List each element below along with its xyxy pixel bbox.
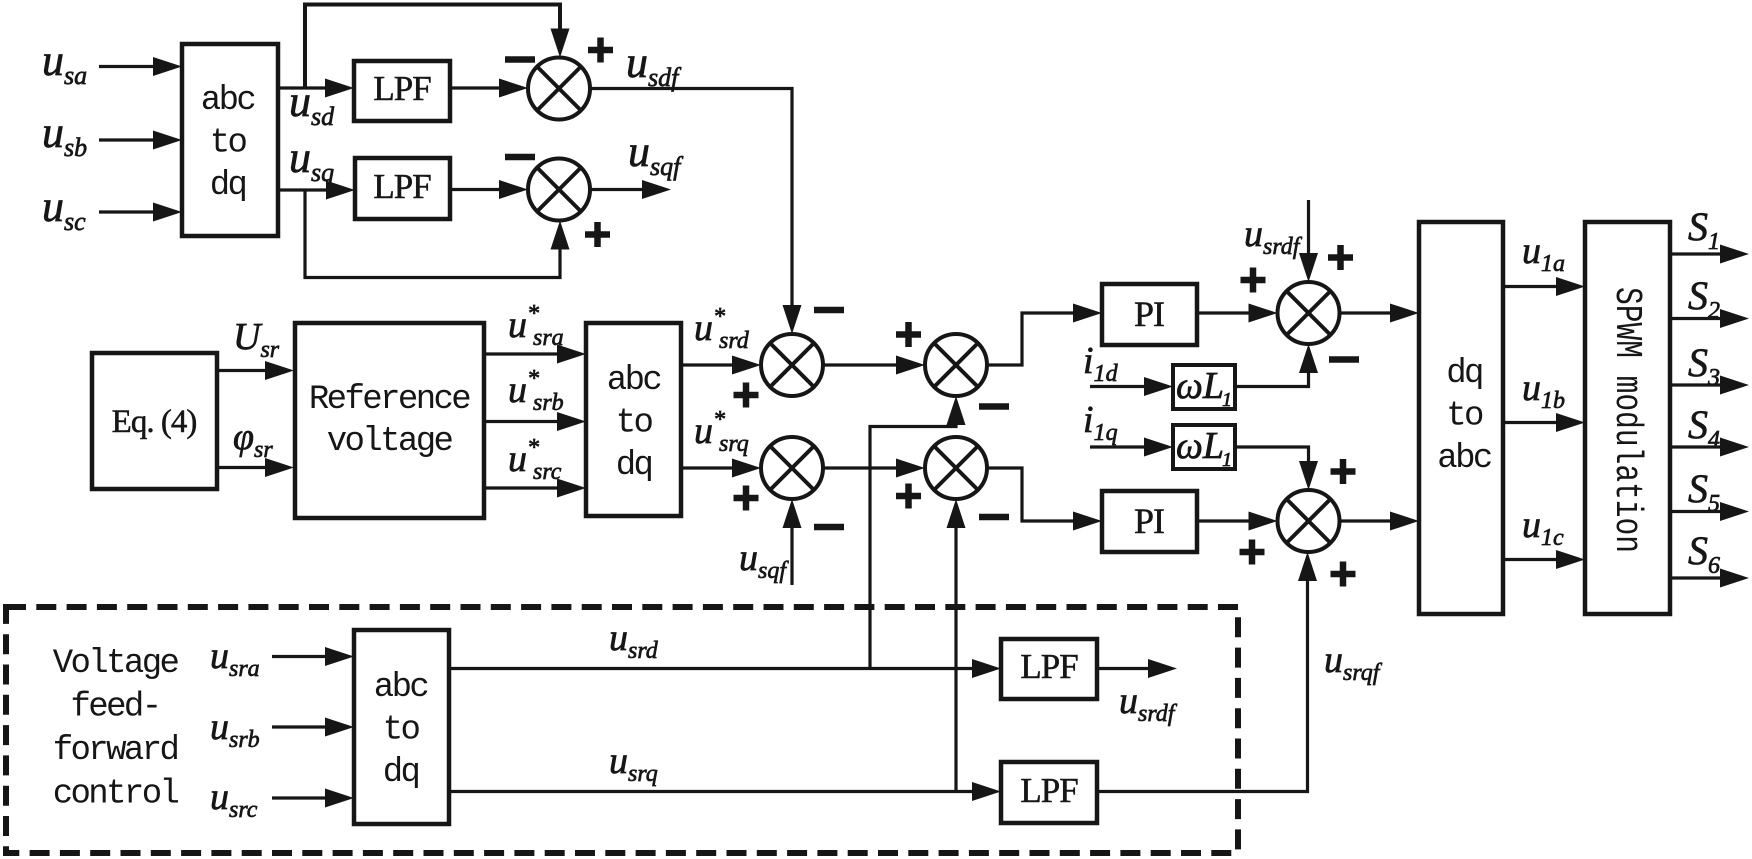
wire u*_src (484, 479, 586, 498)
wire u_srdf into C7 top (1299, 200, 1318, 282)
wire u_sq (278, 181, 355, 200)
svg-text:PI: PI (1134, 501, 1164, 541)
plus sign C2 bottom-right (585, 222, 610, 247)
svg-text:to: to (1446, 398, 1483, 436)
block LPF2 (355, 158, 450, 219)
wire u_src input (272, 789, 354, 808)
svg-text:SPWM modulation: SPWM modulation (1605, 287, 1648, 553)
wire C4 to PI1 (987, 304, 1102, 366)
minus sign C5 bottom (814, 524, 844, 531)
label u_sqf lower (739, 537, 789, 584)
wire u*_srb (484, 412, 586, 431)
block abc-to-dq B1 (182, 44, 278, 236)
wire u_srq to LPF4 (449, 782, 1001, 801)
label u_1c (1522, 504, 1564, 551)
label u_src (210, 776, 258, 823)
block abc-to-dq B3 (354, 630, 449, 824)
label u_sra (210, 635, 260, 682)
label u_srb (210, 706, 260, 753)
wire S6 (1670, 569, 1749, 588)
plus sign C5 left-bottom (734, 486, 759, 511)
svg-text:to: to (383, 712, 420, 750)
svg-text:to: to (616, 405, 653, 443)
plus sign C8 left-bottom (1240, 540, 1265, 565)
svg-text:ωL1: ωL1 (1176, 425, 1232, 471)
label S6 (1688, 528, 1720, 579)
wire u_srd feed to C4 bottom (870, 396, 966, 669)
wire S2 (1670, 309, 1749, 328)
block Reference voltage (295, 323, 484, 518)
label u_sdf (626, 38, 682, 92)
label U_sr (233, 316, 280, 363)
wire wL1b to C8 top (1235, 447, 1318, 490)
label u_sa (42, 36, 87, 90)
svg-text:dq: dq (383, 754, 419, 792)
label phi_sr (233, 416, 273, 463)
wire u_1b (1503, 413, 1585, 432)
label S3 (1688, 340, 1720, 391)
block wL1a (1173, 365, 1235, 411)
svg-text:Eq. (4): Eq. (4) (112, 404, 197, 440)
svg-text:ωL1: ωL1 (1176, 365, 1232, 411)
minus sign C2 top-left (505, 154, 535, 161)
block PI2 (1102, 491, 1197, 552)
wire u_srqf from LPF4 to C8 bottom (1097, 552, 1317, 792)
wire PI1 to C7 (1197, 304, 1278, 323)
label u_srdf bottom (1119, 680, 1178, 727)
wire feedback u_sq to summer C2 bottom (305, 190, 570, 278)
svg-text:LPF: LPF (373, 167, 431, 206)
label Voltage feed-forward control (53, 645, 179, 814)
wire u_1a (1503, 277, 1585, 296)
svg-text:feed-: feed- (70, 689, 159, 727)
label u_sqf (628, 127, 684, 181)
svg-text:control: control (53, 776, 179, 814)
label S5 (1688, 466, 1720, 517)
summer C1 (528, 58, 590, 120)
svg-text:to: to (210, 125, 247, 163)
summer C2 (528, 159, 590, 221)
minus sign C4 bottom-right (979, 403, 1009, 410)
label u*_src (508, 435, 562, 485)
svg-text:voltage: voltage (327, 423, 453, 461)
wire S3 (1670, 376, 1749, 395)
label u_sc (42, 182, 86, 236)
wire u_sdf from C1 to summer C3 top (590, 89, 802, 335)
block LPF3 (1001, 639, 1097, 699)
wire u_srq feed to C6 bottom (947, 499, 966, 792)
label u_1b (1522, 367, 1565, 414)
summer C8 (1278, 490, 1340, 552)
block SPWM modulation (1585, 222, 1670, 614)
block wL1b (1173, 425, 1235, 471)
block LPF4 (1001, 762, 1097, 823)
wire C5 to C6 (823, 459, 925, 478)
label u_sq (289, 133, 334, 187)
wire u_srd to LPF3 (449, 659, 1001, 678)
wire feedback u_sd to summer C1 top (305, 5, 570, 89)
plus sign C7 left-top (1241, 268, 1266, 293)
wire u_sd (278, 79, 354, 98)
block abc-to-dq B2 (586, 323, 681, 516)
label u_sb (42, 108, 87, 162)
summer C3 (761, 334, 823, 396)
svg-text:abc: abc (607, 362, 661, 400)
label u_1a (1522, 230, 1565, 277)
svg-text:LPF: LPF (373, 69, 431, 108)
wire u_sc input (99, 203, 182, 222)
wire u_sra input (272, 647, 354, 666)
dashed box voltage feed-forward control (6, 607, 1238, 853)
summer C6 (925, 437, 987, 499)
block PI1 (1102, 284, 1197, 345)
wire C6 to PI2 (987, 468, 1102, 531)
label S1 (1688, 204, 1720, 255)
wire u_srdf output (1097, 659, 1177, 678)
wire u_sb input (99, 131, 182, 150)
label u*_srd (694, 304, 750, 354)
label u_srdf top (1244, 213, 1303, 260)
minus sign C6 bottom-right (979, 514, 1009, 521)
svg-text:PI: PI (1134, 294, 1164, 334)
wire LPF1 to C1 (450, 79, 528, 98)
svg-text:dq: dq (210, 167, 246, 205)
wire S4 (1670, 438, 1749, 457)
wire u_sqf into C5 bottom (783, 499, 802, 585)
plus sign C4 left-top (896, 322, 921, 347)
wire LPF2 to C2 (450, 180, 528, 199)
wire u_1c (1503, 550, 1585, 569)
svg-text:Reference: Reference (309, 381, 470, 419)
wire u*_srq (681, 459, 761, 478)
label u*_srq (694, 407, 749, 457)
plus sign C3 left-bottom (734, 383, 759, 408)
wire C3 to C4 (823, 356, 925, 375)
wire u*_srd (681, 356, 761, 375)
svg-text:LPF: LPF (1020, 647, 1078, 686)
svg-text:abc: abc (374, 669, 428, 707)
svg-text:abc: abc (201, 82, 255, 120)
wire i_1q to wL1b (1090, 438, 1173, 457)
wire u_srb input (272, 718, 354, 737)
wire i_1d to wL1a (1090, 377, 1173, 396)
plus sign C7 top-right (1328, 245, 1353, 270)
label u_srd (609, 617, 659, 664)
summer C7 (1278, 282, 1340, 344)
minus sign C7 bottom-right (1329, 356, 1359, 363)
summer C5 (761, 437, 823, 499)
svg-text:dq: dq (616, 447, 652, 485)
wire S1 (1670, 245, 1749, 264)
wire u_sqf output (590, 180, 671, 199)
plus sign C8 top-right (1331, 459, 1356, 484)
label u*_sra (508, 301, 564, 351)
label u_srqf (1324, 639, 1383, 686)
label i_1d (1083, 340, 1119, 387)
wire U_sr (217, 361, 294, 380)
wire S5 (1670, 502, 1749, 521)
wire C7 to dq-abc (1340, 304, 1419, 323)
svg-text:abc: abc (1437, 440, 1491, 478)
summer C4 (925, 334, 987, 396)
svg-text:dq: dq (1446, 355, 1482, 393)
block dq-to-abc (1419, 222, 1503, 614)
label S2 (1688, 273, 1720, 324)
block Eq.(4) (92, 353, 217, 489)
plus sign C8 bottom-right (1331, 562, 1356, 587)
label S4 (1688, 402, 1720, 453)
svg-text:forward: forward (53, 732, 178, 770)
label u*_srb (508, 366, 564, 416)
wire wL1a to C7 bottom (1235, 344, 1318, 387)
minus sign C1 top-left (505, 56, 535, 63)
svg-text:Voltage: Voltage (53, 645, 179, 683)
wire phi_sr (217, 458, 294, 477)
block LPF1 (354, 61, 450, 121)
label u_sd (289, 77, 335, 131)
plus sign C6 left-bottom (896, 484, 921, 509)
wire u*_sra (484, 345, 586, 364)
label u_srq (609, 740, 658, 787)
wire C8 to dq-abc (1340, 512, 1419, 531)
minus sign C3 top (814, 307, 844, 314)
plus sign C1 top-right (588, 38, 613, 63)
wire PI2 to C8 (1197, 512, 1278, 531)
wire u_sa input (99, 57, 182, 76)
label i_1q (1083, 399, 1118, 446)
svg-text:LPF: LPF (1020, 771, 1078, 810)
